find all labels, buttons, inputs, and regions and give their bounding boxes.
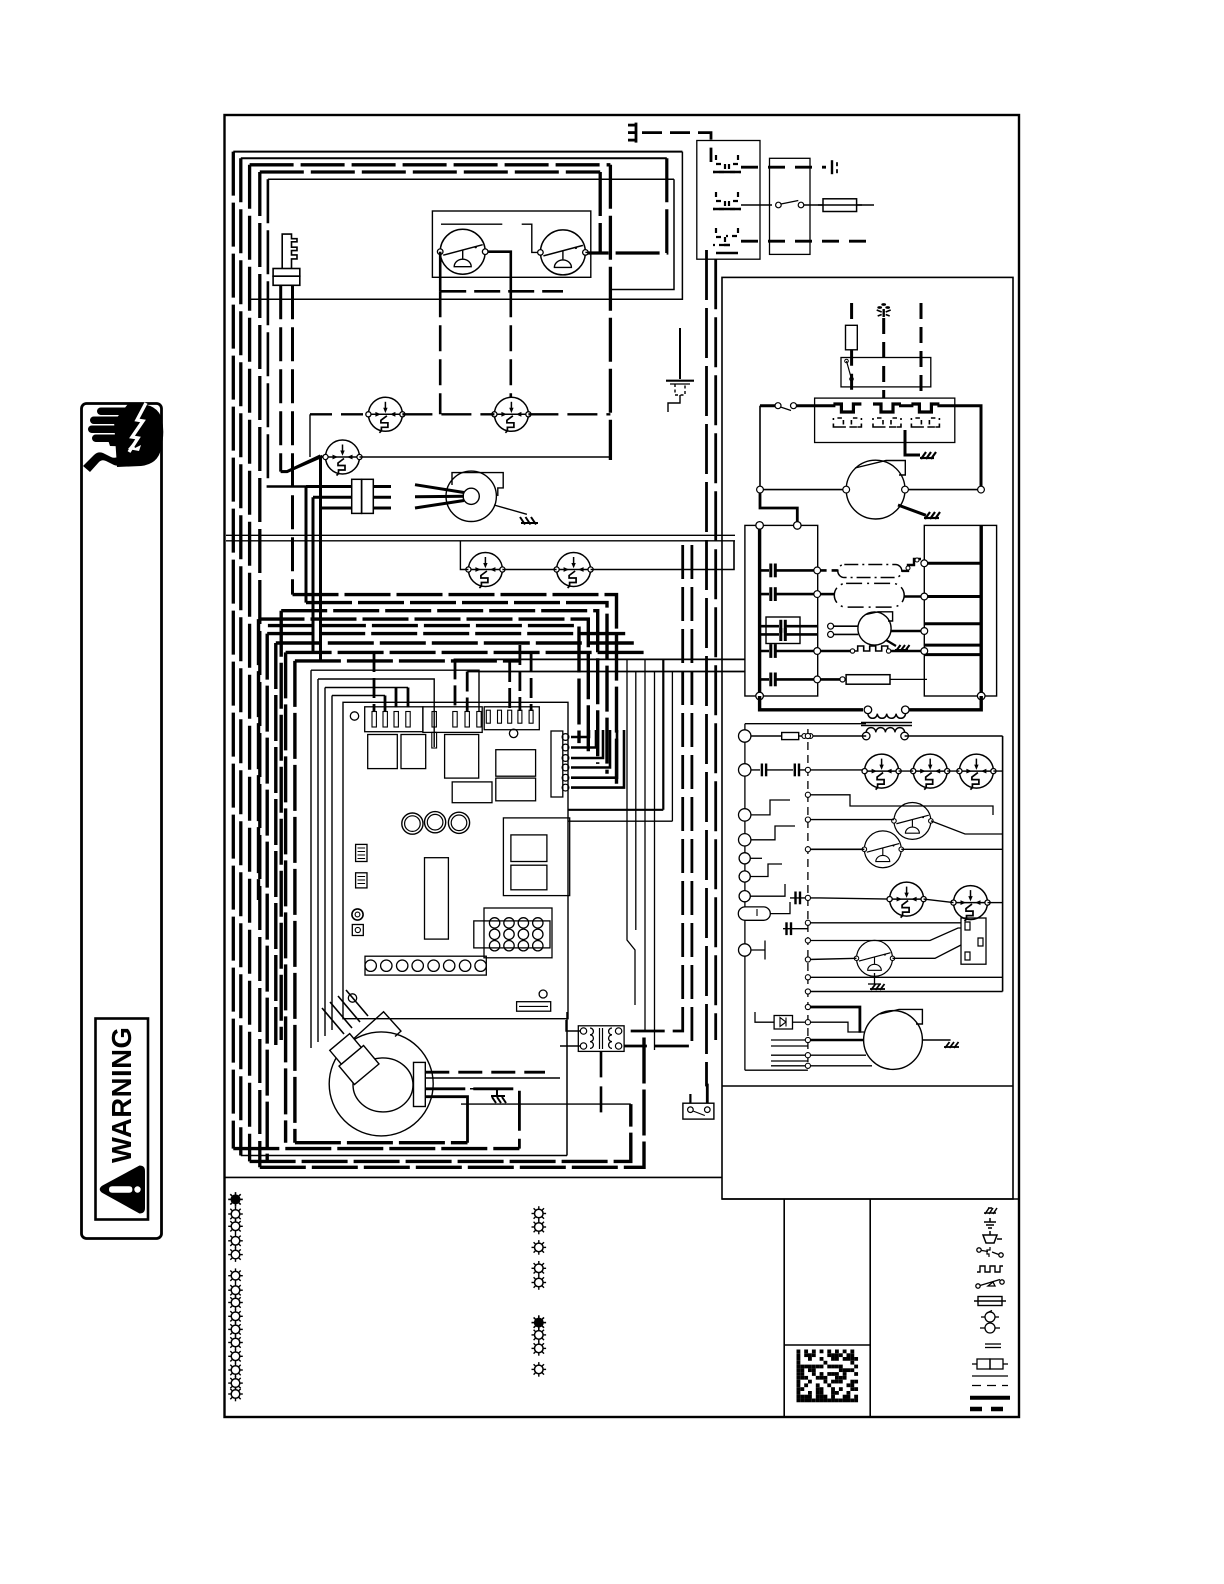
oval2 wire left [821,593,835,596]
relay K1 [368,735,398,769]
wire inside switch box top [441,223,502,225]
inducer wires left 1 [306,487,352,603]
heater element cap row2 [760,593,818,596]
wire loop A4 left vertical [258,172,261,1167]
igniter lead 1 [279,285,282,471]
thin wire gamma 1 to board [311,670,479,711]
small junction stubs left rail [751,800,790,815]
inducer motor IDM hub [463,488,479,504]
door interlock switch SW1 [437,229,488,274]
transformer XFMR2 secondary coil [609,1028,612,1048]
heater element cap row5 [760,678,818,681]
wire SW1 left terminal down [439,252,442,292]
connector B pin slots [432,712,481,728]
bottom loop wire 5 [260,1030,644,1167]
rollout limit switch RS2 [492,397,531,433]
legend fuse [974,1297,1006,1306]
transformer XFMR2 primary coil [590,1028,593,1048]
wire fuse right [857,204,874,206]
inducer ground wire [494,505,527,514]
thermostat terminal T2 [739,764,751,776]
BM2 rung thin 2 [808,1065,872,1067]
junction circles motor rung [757,486,764,493]
thin wire gamma 3 to board [325,687,408,689]
heater element cap row1 [760,569,818,572]
dashed drop from SW1 left to rung [439,291,442,414]
long wire drop x706 [705,250,709,1103]
door switch DS box [683,1103,714,1119]
transformer XFMR1 secondary terminals [862,732,870,740]
rung 977 [808,976,1003,978]
spark electrode symbol [877,303,891,317]
thin wire gamma 4 to board [332,695,385,697]
fuse link row [821,678,840,681]
burner plug box [815,398,955,442]
blower motor BM outer scroll [329,1032,433,1136]
thick wire vertical v683 to transformer [624,545,683,1031]
relay K5 [496,778,536,801]
fuse 3A [751,735,782,737]
junction box right of plug [770,158,811,254]
rung W limit chain [751,769,865,771]
wire loop A4 top [260,170,600,173]
legend fusible link [972,1359,1008,1369]
resistor zigzag row [821,650,850,653]
wire from XFMR2 left bottom [560,1045,580,1047]
bus bottom corner terminals [756,692,764,700]
wire rung through plugs right [899,406,981,490]
harness H line 5 [268,626,579,744]
wire rollout rung right [528,413,610,415]
BM2 ground symbol [944,1042,959,1048]
transformer XFMR1 primary terminals [864,706,872,714]
bottom bus wire [760,696,982,710]
junction circles left bus right edge [814,567,821,574]
harness H line 2 [306,603,607,774]
LED3 [448,812,469,833]
plug pair row 3 [713,228,738,253]
relay K4 [496,750,536,777]
transformer XFMR1 primary coil [868,714,906,719]
motor ground symbol [924,512,940,519]
thermostat terminal T7 [739,891,750,902]
wire left rail to rect top [760,490,797,526]
harness H line 7 [276,643,637,1045]
legend thin dashed line [972,1385,1008,1387]
LED2 [425,812,446,833]
bottom loop wire 4 [250,1104,631,1161]
BM2 rung thick [808,1039,864,1042]
hazard hand-shock icon [83,404,163,472]
warning strip outer box [82,404,162,1239]
humidifier relay box [961,918,986,964]
blower deck line [461,1103,631,1105]
limit switch LS2 [911,754,950,790]
note markers left column [228,1192,243,1207]
blower plug diagonal outer [327,1032,379,1085]
harness left vertical b1 [280,611,283,1040]
wire loop A1 left vertical [232,152,235,1149]
door interlock switch SW2 [538,230,589,275]
plug pair row 2 [713,192,741,209]
door switch left terminal stub [689,1094,691,1103]
wire loop A2 top [241,157,667,159]
legend thick solid line [970,1396,1010,1400]
wire igniter diagonal to PS1 [281,456,323,471]
thin wire verticals under gammas [310,670,312,1048]
pressure switch PS4 [854,940,894,976]
dashed drop right [920,303,923,398]
wire motor rung right [905,489,981,491]
thermostat terminal T4 [739,834,751,846]
wire loop A3 left vertical [248,165,251,1162]
legend switch [977,1247,1003,1257]
transformer XFMR2 box [578,1026,624,1052]
junction circles right bus [921,560,928,567]
wire SW2 right terminal to loops [585,251,600,253]
bus junction dots [805,733,810,994]
PS3 right wire [901,848,1002,850]
motor ground wire [898,505,926,515]
wire vertical x610 [609,165,612,460]
thin control wire bus upper [454,658,745,660]
wire from XFMR2 left top [566,1020,580,1031]
board mounting hole 2 [509,729,517,737]
thin wire vertical v663 [569,659,664,809]
harness H line 3 [281,611,598,764]
blower harness diagonal wires [322,990,368,1034]
dashed low voltage bus [807,729,809,1066]
DIP switch block 2 [356,873,367,888]
rung to PS2 [808,819,894,821]
igniter base upper [273,269,300,277]
small circle near jumper [539,990,547,998]
legend thermal fuse circle [981,1311,999,1323]
legend resistor zigzag [977,1266,1003,1272]
legend chassis ground [984,1208,997,1214]
rung 991 to right rail up [808,991,1003,993]
blower motor BM2 housing [880,1009,922,1024]
ladder top wire [745,723,866,725]
inducer lead converge 1 [415,485,464,493]
bottom loop wire 3 [241,1012,567,1156]
caps near bus mid [790,897,808,899]
left bus top terminal 2 [794,522,802,530]
blower scroll housing cut [337,1012,400,1073]
transformer XFMR2 terminals [580,1028,586,1034]
wire vertical x600 [599,172,602,253]
page border frame [225,115,1020,1417]
thermostat terminal T5 [739,853,750,864]
igniter HSI body [282,234,297,268]
legend double line [985,1344,1001,1348]
rung 1007 thick L [808,1007,860,1033]
heater element cap row4 [760,650,818,653]
QR cell top line [784,1344,870,1346]
rung Y pressure switch 1 [808,795,993,815]
board edge connector B [423,707,482,733]
thermostat oval terminal [738,907,770,920]
HSI resistor rect [846,325,858,350]
left stubs lower bus [771,1040,808,1066]
inducer drive housing [855,461,905,476]
transformer XFMR1 secondary coil [866,728,904,733]
thin wire vertical v645 [644,659,646,1030]
limit control switch left [775,403,781,409]
12 pin connector outer [474,921,550,948]
cap symbols on W rung [761,764,763,777]
wire rollout rung left [310,413,368,415]
legend polarized connector [983,1231,1002,1243]
wire loop A3 top [250,163,611,166]
thermostat terminal T1 [739,730,751,742]
ladder bottom wire [745,1069,808,1071]
blower ground symbol [491,1089,506,1103]
legend thin solid line [972,1375,1008,1377]
rung R to transformer [813,735,1003,737]
pressure switch PS1 [323,440,362,476]
inducer wires left 3 [321,456,352,660]
wire drop dashed x667 to switch [586,158,667,253]
wire stub below XFMR2 [600,1051,603,1115]
legend thick dashed line [970,1407,1010,1412]
pressure switch PS2 [892,802,933,839]
control board outline [343,702,568,1018]
thin wire vertical v636 [635,672,637,931]
right panel internal divider [722,1085,1013,1087]
rung to relay box [808,922,961,924]
switch in junction box [776,202,782,208]
inducer plug connector [352,479,362,513]
LED1 [402,813,423,834]
terminal strip screws [365,960,486,971]
wire rollout rung mid [402,413,494,415]
BM2 ground wire [922,1039,950,1041]
burner plug 3 [911,404,939,427]
harness H line 1 [293,595,617,784]
inducer motor IDM housing [452,473,503,496]
ground symbol plug2 [920,452,936,459]
limit switch LS4 [887,882,926,918]
oval1 zigzag right [902,559,921,571]
wire loop A5 left vertical [268,179,306,486]
small motor circle mid [858,612,891,645]
connector C pin wires [510,645,531,711]
wire row1 dashed to ground stub [741,166,826,169]
right sub-panel box [722,277,1013,1199]
bottom loop wire 2 [233,1147,519,1150]
thin wire gamma 2 to board [318,679,434,747]
board right edge connector [551,731,563,797]
wire ground to plug box [642,133,711,162]
wire motor rung left [760,489,846,491]
blower motor BM2 body [864,1011,923,1070]
legend earth ground [984,1218,996,1228]
transformer XFMR1 core [861,722,912,724]
wire between limits [899,770,1003,772]
relay K6 [452,782,492,803]
harness left vertical inner [295,661,520,1143]
oval1 wire left dashed [821,569,838,572]
pressure switch PS3 [862,831,903,868]
burner plug 1 [833,404,861,427]
wire left rail down [759,406,761,490]
rung 940 diagonal to box [808,928,961,941]
blower lead 2 dashed [425,1077,560,1079]
line voltage separator double line [226,534,735,536]
warning triangle icon [100,1166,145,1214]
limit switch LS1 [862,754,901,790]
long wire drop x716 [714,259,717,1040]
chassis ground top [628,123,636,143]
cap pair lower [783,928,808,930]
legend pressure switch [976,1280,1004,1289]
relay K2 [401,735,426,769]
small motor ground [886,640,896,646]
wire aux limit rung right [591,541,734,570]
note markers middle column [532,1206,547,1221]
wire aux limit rung mid [502,569,556,571]
rung limit LS4 LS5 [808,898,890,899]
small motor wires [834,626,859,634]
connector B pin wires [455,659,467,712]
dashed drop from SW1 to RS2 [509,291,512,397]
inducer lead converge 3 [415,501,464,509]
12 pin connector pins [489,918,543,951]
ground wire from plug 2 [905,430,920,455]
wire LS5 right [988,902,1003,904]
thick wire vertical v692 to transformer [624,545,692,1046]
small ring component [352,909,363,920]
connector A pin slots [372,712,410,728]
thin wire vertical v672 [569,672,673,822]
blower motor BM body [353,1058,413,1112]
wire row3 dashed right [741,240,874,243]
auxiliary limit switch AL1 [466,553,505,589]
thermostat terminal T6 [739,871,750,882]
legend circle terminal [980,1323,1000,1333]
wire drop thin x674 [610,179,674,289]
thin wire vertical v627 [627,659,635,1005]
right bus contact row dividers [924,563,981,654]
harness H line 8 [286,652,645,1142]
left bus top terminal 1 [756,522,764,530]
harness H line 6 [267,634,629,1162]
inducer drive motor circle [846,460,905,519]
board edge connector C [484,707,539,730]
flame sensor box [841,358,931,387]
terminal T8 wires [751,941,765,960]
bottom table column divider 1 [783,1199,785,1417]
polarized ground stub row1 [832,160,837,174]
lower bus junction dots [805,1004,810,1068]
thin wire vertical v654 [654,672,656,1051]
board mounting hole 3 [348,994,356,1002]
auxiliary limit switch AL2 [554,553,593,589]
right connector pin wires [571,730,624,788]
dashed drop center [882,318,885,398]
wire switch rung [760,404,835,407]
rung to PS4 [808,958,857,959]
wire to fuse [804,204,823,206]
BM2 rung thin 1 [808,1054,866,1056]
wire aux limit rung left [460,541,468,570]
connector C pin slots [486,710,533,723]
terminal strip [365,956,486,975]
right connector pin pads [562,734,569,791]
heat element oval 2 [834,583,904,607]
PS2 right diagonal [931,821,1003,834]
wire row2 into junction box [741,204,772,206]
bottom table column divider 2 [869,1199,871,1417]
wire to SW2 left terminal [522,224,538,252]
wire diode to motor [808,1022,864,1032]
jumper bar bottom [517,1002,551,1012]
heat element oval 1 [838,565,902,578]
small square component [352,925,363,936]
left bus thick rail [758,525,761,696]
connector B long pin [432,732,437,748]
lightning bolt cutout [129,403,146,452]
PS4 right wire to box [893,945,962,958]
igniter lead 2 [291,285,294,594]
harness H line 4 [259,619,589,900]
ladder left rail [744,724,746,1070]
limit switch LS5 [951,886,990,922]
limit switch LS3 [957,754,996,790]
svg-text:WARNING: WARNING [106,1027,137,1163]
wire loop A2 left vertical [239,158,242,1155]
inducer lead converge 2 [415,495,464,498]
wire loop A5 top thin [268,178,674,180]
dashed wire bottom of switch box [440,290,563,293]
inducer motor IDM body [446,471,496,521]
left bus rect outer [745,525,818,696]
blower lead 3 to loop [425,1089,519,1149]
wire rollout left corner down [309,414,311,457]
connector A pin wires [374,652,408,712]
door switch DS contacts [688,1107,694,1113]
blower lead 4 to loop [425,1097,467,1143]
WARNING label box [96,1019,149,1220]
wire drop at x682 [250,152,683,300]
inducer ground symbol [520,517,538,525]
fuse F1 [823,199,857,212]
wire loop A1 top [233,151,682,153]
QR data matrix code [797,1350,859,1403]
wire PS1 to right [360,456,611,458]
right rail low voltage [1002,736,1004,992]
bottom loop wire 1 [295,1141,468,1144]
board edge connector A [365,707,423,732]
blower ground wire [470,1088,496,1090]
small motor housing [866,612,893,621]
wire SW1 right terminal down [489,252,511,292]
transformer XFMR2 core [599,1028,601,1049]
right bus thick rail [980,525,983,696]
DIP switch block 1 [356,844,367,861]
interlock switch box [432,211,590,277]
inducer stubs right of connector [373,487,391,509]
flame sensor lever [847,361,852,379]
relay block right box [503,818,569,896]
rung to PS3 [808,848,864,850]
igniter base lower [273,276,300,285]
burner plug 2 [873,404,901,427]
right bus rect outer [924,525,996,696]
rollout limit switch RS1 [366,397,405,433]
wire between LS4 LS5 [924,899,954,903]
